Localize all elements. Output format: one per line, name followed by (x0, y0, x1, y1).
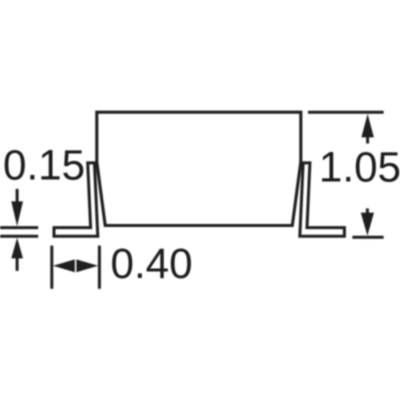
1.05 down arrow (361, 208, 374, 235)
package body outline (97, 112, 301, 225)
left lead (gull-wing) (54, 163, 98, 236)
svg-text:1.05: 1.05 (319, 144, 400, 191)
svg-text:0.40: 0.40 (111, 240, 193, 287)
0.40 right arrowhead (76, 259, 98, 272)
0.40 left arrowhead (53, 259, 75, 272)
0.40 left extension tick (50, 246, 53, 289)
1.05 bottom extension line (352, 236, 383, 239)
svg-text:0.15: 0.15 (3, 141, 85, 188)
0.15 down arrow (11, 189, 23, 226)
0.15 up arrow (11, 238, 23, 271)
1.05 up arrow (361, 114, 374, 144)
right lead (gull-wing) (300, 163, 345, 236)
0.15 lower extension line (0, 235, 38, 238)
1.05 top extension line (308, 111, 384, 114)
0.40 right extension tick (98, 246, 101, 289)
0.15 upper extension line (0, 226, 38, 229)
